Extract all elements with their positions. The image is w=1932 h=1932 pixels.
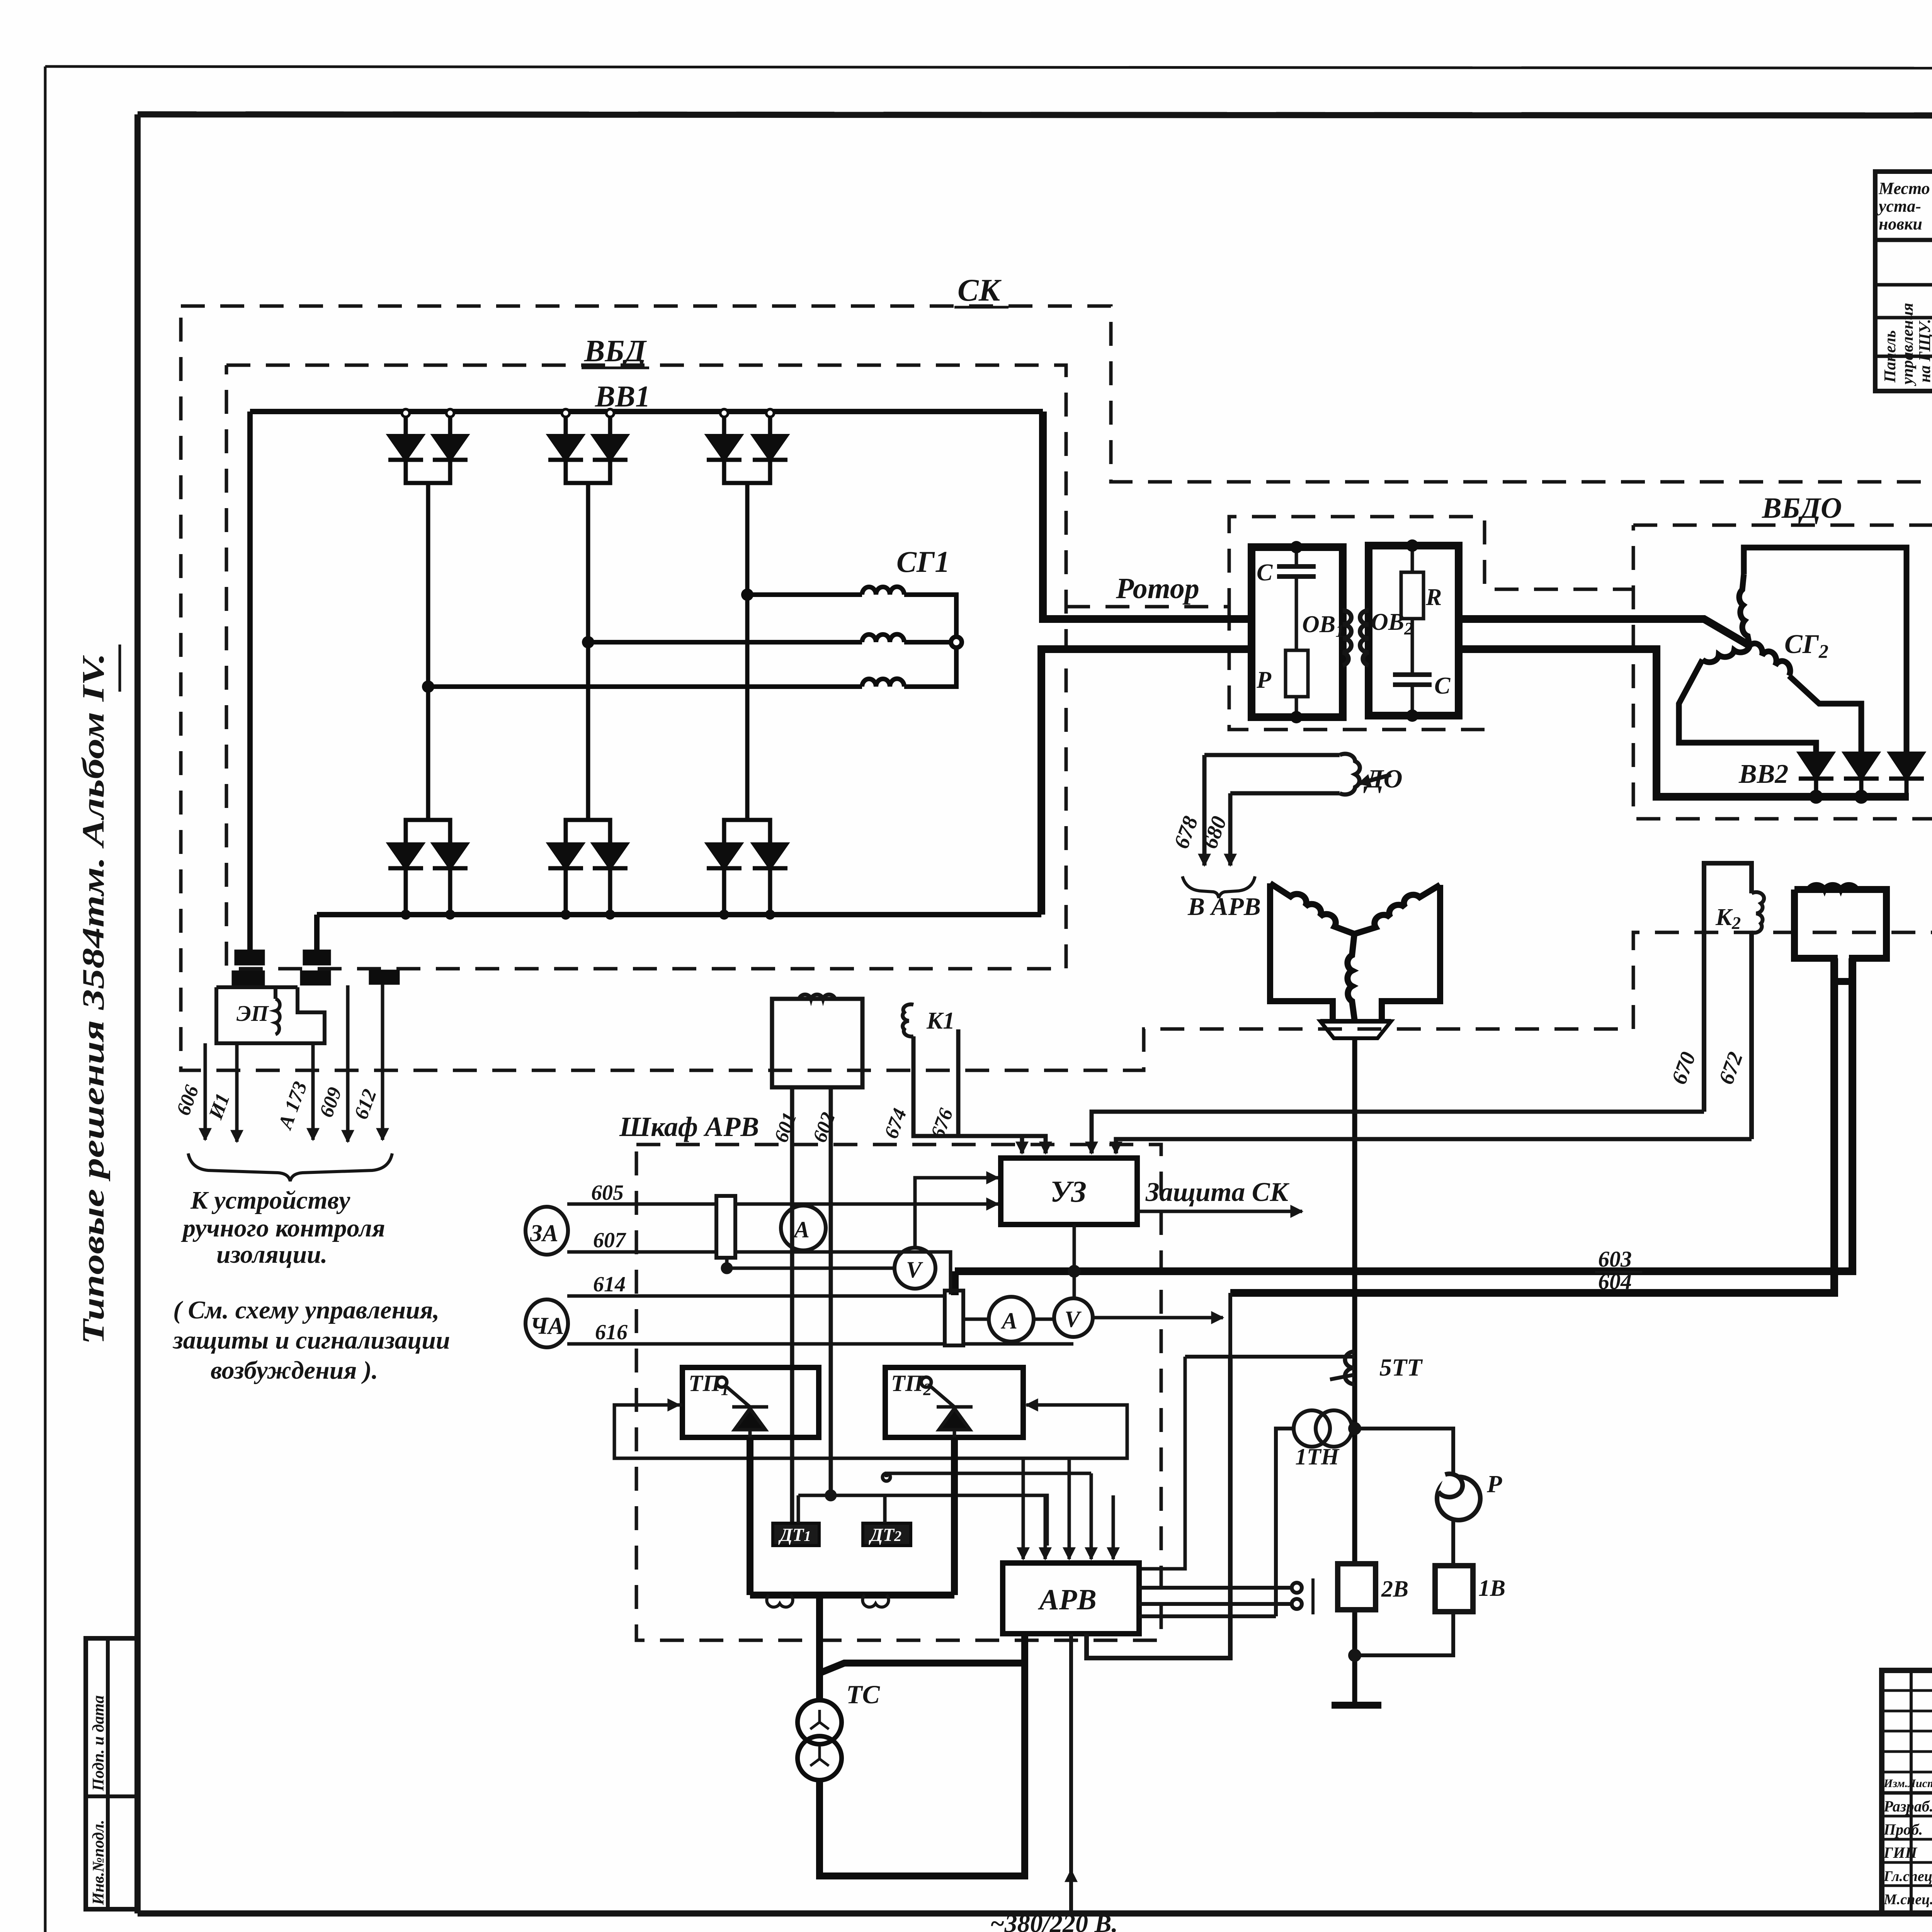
svg-text:Разраб.: Разраб. [1883, 1798, 1932, 1815]
svg-text:1ТН: 1ТН [1295, 1444, 1340, 1469]
block ARV [1003, 1563, 1139, 1634]
block UZ [1001, 1158, 1137, 1225]
svg-text:601: 601 [770, 1109, 801, 1145]
thyristor pair 2 top [548, 409, 628, 820]
wire OV enclosure bottom dashed [1229, 607, 1485, 730]
svg-text:Шкаф АРВ: Шкаф АРВ [619, 1111, 759, 1142]
wire V1 link [727, 1258, 895, 1268]
node Shkaf ARV dashed box [636, 1145, 1161, 1640]
svg-text:ВБД: ВБД [584, 334, 647, 368]
ground [1332, 1702, 1381, 1709]
APPARATUS TABLE [1875, 172, 1932, 391]
wire 604 to 5TT tap [1228, 1293, 1232, 1357]
left columns [1910, 1670, 1913, 1913]
winding machine right wing [1382, 885, 1440, 1021]
wire top bus left drop to terminal [247, 412, 253, 952]
svg-text:Панель: Панель [1881, 330, 1899, 383]
wire 616 [567, 1342, 945, 1346]
svg-text:606: 606 [172, 1082, 203, 1118]
svg-text:ОВ2: ОВ2 [1371, 609, 1413, 638]
relay K2 loop [1704, 863, 1752, 1112]
node brace V ARV [1182, 876, 1255, 898]
winding K1 coil symbol [903, 1004, 913, 1036]
svg-text:Инв.№подл.: Инв.№подл. [90, 1820, 107, 1905]
capacitor C in OV2 [1393, 672, 1432, 677]
svg-text:АРВ: АРВ [1038, 1583, 1097, 1616]
winding machine left wing [1270, 883, 1333, 1021]
winding DO [1204, 753, 1340, 757]
node OV dots [1290, 541, 1303, 553]
node cable marker 3A [526, 1207, 568, 1255]
svg-text:614: 614 [593, 1272, 626, 1296]
svg-text:К1: К1 [926, 1008, 955, 1034]
svg-text:Проб.: Проб. [1883, 1821, 1923, 1838]
transformer TS [798, 1700, 842, 1744]
svg-text:А: А [793, 1217, 810, 1242]
svg-text:R: R [1425, 584, 1442, 611]
node junction dots SG1 [741, 588, 753, 601]
node phase2 terminal circle [951, 637, 962, 648]
meter V1 [895, 1248, 935, 1289]
svg-text:на ГЩУ.: на ГЩУ. [1916, 319, 1932, 383]
svg-text:К устройству: К устройству [190, 1186, 350, 1214]
wire 603 west drop [951, 1271, 959, 1295]
svg-text:~380/220 В.: ~380/220 В. [990, 1910, 1118, 1932]
wire ARV measure loop [1087, 1357, 1230, 1658]
wire rotor upper bus [1043, 412, 1252, 619]
wire 380-220 supply [1069, 1634, 1073, 1917]
node VBD dashed box [226, 365, 1066, 969]
wire bottom bridge bus [317, 912, 1041, 917]
relay EP [216, 987, 325, 1043]
node terminal block 1b [232, 971, 265, 985]
wire 672 [1116, 1139, 1752, 1153]
wires to manual insulation control [188, 985, 392, 1181]
block DT2 [863, 1523, 911, 1546]
wire Zashchita SK arrow [1137, 1210, 1302, 1213]
node OV2 block frame [1369, 546, 1459, 716]
wire rotor lower bus right of OV2 [1459, 649, 1909, 797]
SG1 GENERATOR WINDINGS [428, 587, 962, 687]
wire UZ to bus 603 [1073, 1225, 1076, 1298]
svg-text:защиты и сигнализации: защиты и сигнализации [172, 1326, 450, 1354]
wire 606 [204, 1070, 207, 1140]
winding K1 box coil [799, 995, 835, 999]
svg-text:ЧА: ЧА [530, 1313, 564, 1339]
svg-text:С: С [1434, 673, 1451, 699]
svg-text:Р: Р [1486, 1470, 1502, 1498]
wire 1TN left lead [1276, 1429, 1294, 1616]
VV2 DIODES [1799, 753, 1924, 802]
TP OUTPUT BUS AND TS TRANSFORMER [750, 1437, 1025, 1876]
svg-text:V: V [906, 1257, 923, 1282]
K2 RELAY [1704, 863, 1764, 1139]
winding SG2 left phase [1702, 646, 1750, 662]
svg-text:5ТТ: 5ТТ [1379, 1354, 1423, 1381]
svg-text:Типовые решения 3584тм. Аль: Типовые решения 3584тм. Альбом IV. [77, 653, 111, 1345]
svg-text:ТП1: ТП1 [689, 1371, 729, 1399]
svg-text:Ротор: Ротор [1116, 572, 1199, 605]
wire V1 to UZ arrow [915, 1178, 998, 1248]
svg-text:2В: 2В [1381, 1576, 1408, 1602]
node Rotor dashed line [1066, 517, 1633, 607]
svg-text:674: 674 [880, 1105, 911, 1141]
capacitor C in OV1 [1295, 547, 1298, 566]
svg-text:уста-: уста- [1877, 197, 1921, 216]
svg-text:607: 607 [593, 1228, 626, 1252]
svg-text:М.спец.: М.спец. [1883, 1891, 1932, 1908]
meter A1 [781, 1206, 826, 1250]
winding machine center coil [1347, 934, 1355, 1021]
block DT1 [773, 1523, 819, 1546]
svg-text:С: С [1257, 560, 1273, 586]
svg-text:изоляции.: изоляции. [216, 1240, 327, 1269]
svg-text:Подп. и дата: Подп. и дата [90, 1695, 107, 1791]
svg-text:ОВ1: ОВ1 [1302, 611, 1344, 641]
transformer CT 5TT [1345, 1352, 1355, 1384]
wire 680 [1228, 793, 1233, 866]
svg-text:А: А [1000, 1308, 1017, 1333]
svg-text:В АРВ: В АРВ [1187, 893, 1261, 921]
wire rotor upper bus right of OV2 [1459, 619, 1750, 646]
wire TP1 output [747, 1437, 753, 1595]
winding SG1 phase 3 [428, 684, 862, 689]
TP1 THYRISTOR CONVERTER [682, 1367, 819, 1437]
wire terminal to A2 [963, 1318, 989, 1321]
svg-text:ВВ1: ВВ1 [595, 379, 650, 413]
wire 602 [829, 1087, 833, 1495]
title block frame [1882, 1670, 1932, 1913]
svg-text:ЭП: ЭП [236, 1001, 269, 1026]
wire 612 [381, 985, 384, 1140]
svg-text:604: 604 [1598, 1269, 1632, 1294]
wire VV1 top bus [250, 409, 1043, 414]
wire TS loop [820, 1663, 1025, 1673]
thyristor pair 2 bottom [548, 820, 628, 915]
node OV1 block frame [1252, 547, 1343, 717]
wire TS feed [816, 1595, 823, 1700]
svg-text:672: 672 [1714, 1049, 1748, 1087]
svg-text:ДО: ДО [1363, 764, 1403, 793]
DT boxes [773, 1523, 911, 1546]
svg-text:V: V [1065, 1306, 1082, 1332]
wire ARV output contacts [1139, 1586, 1291, 1590]
wire V2 out [1093, 1316, 1223, 1320]
node terminal block 3b [369, 970, 400, 985]
svg-text:Р: Р [1256, 667, 1272, 693]
node cable marker 4A [526, 1299, 568, 1347]
wire 607 [567, 1250, 716, 1254]
svg-text:609: 609 [315, 1084, 346, 1120]
TITLE BLOCK [1882, 1670, 1932, 1913]
winding CT loop 1 [767, 1595, 793, 1607]
svg-text:СГ1: СГ1 [896, 545, 950, 578]
wire 678 [1202, 755, 1207, 866]
THICK POWER BUSES [250, 412, 1043, 952]
wire bus to P branch [1355, 1429, 1453, 1476]
SCHEMATIC TEXT LABELS [172, 272, 1842, 1932]
wire TP2 output [951, 1437, 958, 1595]
wire 676 [958, 1029, 1046, 1153]
wire 614 [567, 1294, 945, 1298]
svg-text:ТС: ТС [846, 1680, 880, 1709]
svg-text:670: 670 [1667, 1049, 1701, 1087]
svg-text:1В: 1В [1478, 1575, 1505, 1601]
svg-text:ГИП: ГИП [1883, 1844, 1918, 1861]
wire 604 bus [1230, 958, 1834, 1293]
svg-text:Гл.спец.: Гл.спец. [1883, 1868, 1932, 1884]
svg-text:ТП2: ТП2 [891, 1371, 932, 1399]
node VBDO dashed box [1633, 525, 1932, 819]
wire A173 [311, 1043, 315, 1140]
block 2V [1338, 1564, 1376, 1610]
meter V2 [1054, 1298, 1093, 1337]
svg-text:СК: СК [957, 272, 1002, 308]
svg-text:возбуждения ).: возбуждения ). [211, 1356, 378, 1384]
resistor R in OV2 [1411, 546, 1414, 572]
svg-text:616: 616 [595, 1320, 628, 1344]
winding OV2 coil [1360, 611, 1369, 665]
RIGHT FIELD WINDING BLOCK [1794, 884, 1886, 981]
svg-text:ВБДО: ВБДО [1762, 492, 1842, 524]
svg-text:Место: Место [1878, 179, 1930, 198]
OV1 / OV2 BLOCKS [1252, 546, 1459, 717]
block 1V [1435, 1566, 1473, 1612]
winding SG1 phase 2 [588, 640, 862, 645]
wire 601 [790, 1087, 794, 1523]
transformer 1TN [1294, 1410, 1330, 1447]
K1 RELAY [772, 995, 1752, 1523]
svg-text:605: 605 [591, 1181, 624, 1205]
svg-text:ручного контроля: ручного контроля [181, 1214, 385, 1242]
thyristor pair 3 bottom [707, 820, 787, 915]
winding CT loop 2 [862, 1595, 888, 1607]
svg-text:СГ2: СГ2 [1784, 629, 1828, 662]
wire 674 [913, 1036, 1022, 1153]
wire 670 [1092, 1112, 1704, 1153]
wire 609 [346, 985, 350, 1142]
node terminal block 614-616 [945, 1291, 963, 1345]
wire ARV top arrows [1022, 1458, 1025, 1559]
wire I1 [235, 1043, 239, 1142]
device P symbol [1437, 1477, 1480, 1520]
node CK dashed boundary [181, 306, 1932, 1070]
relay K1 box [772, 999, 862, 1087]
winding SG2 right phase [1750, 643, 1790, 676]
DO winding with wires 678 680 [1182, 754, 1391, 898]
thyristor pair 1 bottom [388, 820, 468, 915]
wire 1V bottom [1355, 1612, 1453, 1655]
node terminal block 2a [303, 950, 331, 965]
svg-text:И1: И1 [204, 1090, 234, 1122]
svg-text:ЗА: ЗА [530, 1220, 558, 1247]
node brace K ustroystvu [188, 1153, 392, 1181]
TOP THYRISTOR BRIDGE VV1 [388, 409, 787, 820]
svg-text:( См. схему управления,: ( См. схему управления, [173, 1296, 439, 1324]
EXCITER MACHINE SYMBOL [1270, 883, 1440, 1038]
left bottom mini table [86, 1638, 138, 1909]
svg-text:Защита СК: Защита СК [1145, 1177, 1289, 1207]
node terminal block 2b [300, 971, 331, 985]
winding OV1 coil [1343, 611, 1351, 665]
thyristor TP1 symbol [717, 1377, 727, 1387]
thyristor pair 1 top [388, 409, 468, 820]
svg-text:603: 603 [1598, 1247, 1632, 1272]
meter A2 [989, 1297, 1034, 1342]
svg-text:612: 612 [350, 1086, 381, 1122]
SG2 STAR WINDING [1679, 548, 1906, 753]
resistor R in OV1 [1286, 650, 1308, 697]
EP AREA TERMINALS [232, 950, 400, 985]
thyristor TP2 symbol [921, 1377, 931, 1387]
table frame [1875, 172, 1932, 391]
BOTTOM THYRISTOR BRIDGE [388, 820, 787, 915]
svg-text:602: 602 [809, 1109, 840, 1145]
wire bottom bus drop to terminal [314, 915, 320, 952]
node brush bar [1320, 1021, 1391, 1038]
svg-text:УЗ: УЗ [1050, 1175, 1087, 1208]
wire 5TT secondary [1139, 1357, 1185, 1569]
winding block coil [1808, 884, 1857, 889]
svg-text:А 173: А 173 [274, 1079, 312, 1133]
wire rotor lower bus [1041, 649, 1252, 915]
wire P to 1V [1451, 1520, 1455, 1566]
left thin rows [1882, 1689, 1932, 1692]
winding EP coil [276, 999, 280, 1034]
winding K2 coil [1752, 892, 1764, 933]
wire 672 drop [1749, 932, 1754, 1139]
winding SG2 top phase [1739, 574, 1750, 646]
wire machine to ground bus [1332, 1038, 1381, 1705]
svg-text:ВВ2: ВВ2 [1738, 759, 1788, 789]
label IV underline [119, 645, 121, 692]
thyristor pair 3 top [707, 409, 787, 820]
winding block frame [1794, 889, 1886, 981]
wire DO arrow [1359, 775, 1391, 784]
wire TP cross feedback loop [614, 1405, 1127, 1458]
wire 605 [567, 1202, 716, 1206]
wire DT link lines [798, 1458, 1113, 1559]
svg-text:управления: управления [1899, 303, 1917, 386]
svg-text:новки: новки [1879, 214, 1922, 233]
diode VV2-1 [1800, 753, 1832, 778]
winding SG1 phase 1 [747, 592, 862, 597]
svg-text:К2: К2 [1715, 904, 1741, 933]
svg-text:Изм.Лист: Изм.Лист [1883, 1777, 1932, 1790]
node terminal block 1a [235, 950, 265, 965]
node terminal block 605-607 [716, 1196, 735, 1258]
node TS star marks [810, 1710, 829, 1729]
wire 603 bus [955, 958, 1852, 1271]
wire 616 continuation [963, 1342, 1073, 1346]
DASHED ENCLOSURES [181, 306, 1932, 1640]
diode VV2-3 [1890, 753, 1923, 778]
RIGHT MEASURING BRANCH [1087, 1293, 1480, 1660]
wire output bus [750, 1592, 954, 1599]
svg-text:678: 678 [1169, 813, 1203, 852]
LEFT MARGIN [77, 653, 111, 1345]
diode VV2-2 [1845, 753, 1878, 778]
TP2 THYRISTOR CONVERTER [885, 1367, 1023, 1437]
